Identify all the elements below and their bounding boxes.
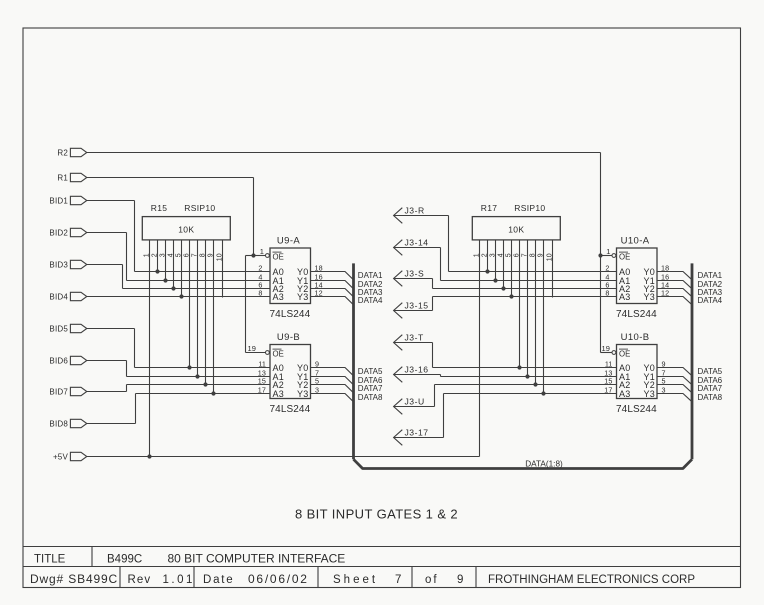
svg-text:RSIP10: RSIP10	[514, 203, 545, 213]
wire J3-14 horizontal	[394, 247, 441, 249]
wire R2 horizontal to U10 OE column	[87, 152, 601, 154]
input connector BID5	[70, 324, 86, 332]
svg-text:18: 18	[661, 263, 669, 272]
wire U10 output DATA7 to bus	[657, 385, 692, 393]
junction R15 pin 5	[179, 294, 183, 298]
wire J3-S vertical jog	[432, 279, 434, 289]
svg-text:Y3: Y3	[644, 389, 655, 399]
wire R2 vertical drop to U10-A/U10-B OE	[600, 153, 602, 353]
wire R1 vertical drop to U9-B OE	[245, 256, 247, 353]
wire R17 pin 4 pull-up	[503, 240, 505, 289]
svg-text:A3: A3	[619, 389, 630, 399]
wire U10 output DATA4 to bus	[657, 297, 692, 305]
wire U10 output DATA1 to bus	[657, 272, 692, 280]
wire J3-17 horizontal	[394, 437, 444, 439]
wire R15 pin 1 to +5V rail	[149, 240, 151, 457]
junction R15 pin 8	[203, 382, 207, 386]
svg-text:B499C: B499C	[107, 554, 142, 566]
junction R15 pin 7	[195, 374, 199, 378]
wire R17 pin 8 pull-up	[535, 240, 537, 385]
svg-text:J3-15: J3-15	[405, 301, 429, 311]
svg-text:15: 15	[604, 376, 612, 385]
svg-text:11: 11	[605, 359, 613, 368]
svg-text:BID8: BID8	[49, 420, 68, 429]
svg-text:BID4: BID4	[49, 293, 68, 302]
input connector BID4	[70, 292, 86, 300]
svg-text:9: 9	[457, 574, 463, 586]
svg-text:R17: R17	[481, 203, 498, 213]
svg-text:1: 1	[260, 247, 264, 256]
junction R1 at U9-A OE	[251, 253, 255, 257]
junction R17 pin 8	[533, 382, 537, 386]
wire J3-15 horizontal	[394, 310, 433, 312]
svg-text:1.01: 1.01	[163, 574, 195, 586]
svg-text:9: 9	[662, 359, 666, 368]
svg-text:DATA5: DATA5	[358, 367, 383, 376]
svg-text:1: 1	[473, 253, 480, 257]
wire J3-14 row into U10 input	[441, 280, 617, 282]
svg-text:+5V: +5V	[53, 453, 69, 462]
op-amp? no - buffer U10-A box	[617, 248, 658, 304]
wire +5V riser to R17 pin 1	[479, 240, 481, 457]
svg-text:74LS244: 74LS244	[616, 309, 657, 320]
svg-text:5: 5	[315, 376, 319, 385]
wire R15 pin 3 pull-up	[165, 240, 167, 281]
svg-text:J3-T: J3-T	[405, 333, 424, 343]
wire BID6 horizontal	[87, 360, 127, 362]
junction R15 pin 2	[155, 269, 159, 273]
junction R15 pin 3	[163, 278, 167, 282]
U9-B OE bubble	[266, 351, 270, 355]
input connector R2	[70, 148, 86, 156]
svg-text:U10-A: U10-A	[621, 236, 650, 247]
wire BID3 row into U9 input	[123, 288, 271, 290]
svg-text:2: 2	[605, 263, 609, 272]
junction R17 pin 3	[493, 278, 497, 282]
svg-text:BID2: BID2	[49, 229, 68, 238]
svg-text:BID5: BID5	[49, 325, 68, 334]
svg-text:J3-S: J3-S	[405, 269, 425, 279]
wire R15 pin 9 pull-up	[213, 240, 215, 394]
svg-text:DATA7: DATA7	[698, 384, 723, 393]
wire BID5 horizontal	[87, 328, 135, 330]
wire J3-R row into U10 input	[449, 271, 617, 273]
junction +5V at R15 pin 1	[147, 454, 151, 458]
wire J3-17 vertical jog	[443, 394, 445, 438]
svg-text:74LS244: 74LS244	[616, 404, 657, 415]
title block row2 divider x=476.0	[475, 567, 477, 588]
wire BID2 vertical jog	[126, 233, 128, 281]
wire J3-15 row into U10 input	[433, 296, 617, 298]
wire J3-R vertical jog	[448, 216, 450, 272]
wire U10 output DATA2 to bus	[657, 281, 692, 289]
wire BID8 row into U9 input	[136, 393, 271, 395]
svg-text:A3: A3	[273, 292, 284, 302]
connector arrow J3-16	[394, 367, 403, 383]
svg-text:J3-16: J3-16	[405, 365, 429, 375]
svg-text:DATA(1:8): DATA(1:8)	[525, 460, 563, 469]
junction R2 at U10-A OE	[598, 253, 602, 257]
svg-text:18: 18	[315, 263, 323, 272]
wire R1 jog left toward U9-B OE	[246, 255, 254, 257]
svg-text:3: 3	[662, 385, 666, 394]
svg-text:19: 19	[601, 344, 610, 353]
svg-text:12: 12	[661, 288, 669, 297]
wire R15 pin 2 pull-up	[157, 240, 159, 272]
wire R15 pin 8 pull-up	[205, 240, 207, 385]
title block top rule	[23, 546, 741, 548]
svg-text:RSIP10: RSIP10	[184, 203, 215, 213]
wire R17 pin 7 pull-up	[527, 240, 529, 377]
wire R17 pin 9 pull-up	[543, 240, 545, 394]
wire J3-U row into U10 input	[435, 384, 617, 386]
wire J3-14 vertical jog	[440, 248, 442, 281]
svg-text:R1: R1	[57, 174, 68, 183]
wire BID8 horizontal	[87, 423, 136, 425]
svg-text:DATA7: DATA7	[358, 384, 383, 393]
U10-B OE bubble	[612, 351, 616, 355]
title block middle rule	[23, 566, 741, 568]
wire BID8 vertical jog	[135, 394, 137, 424]
junction R15 pin 4	[171, 286, 175, 290]
svg-text:17: 17	[604, 385, 612, 394]
svg-text:DATA8: DATA8	[358, 393, 383, 402]
svg-text:DATA8: DATA8	[698, 393, 723, 402]
bus DATA(1:8) bottom run with chamfers	[354, 459, 693, 468]
wire U10 output DATA5 to bus	[657, 368, 692, 376]
wire J3-16 vertical jog	[440, 375, 442, 377]
wire J3-T row into U10 input	[433, 367, 617, 369]
input connector BID2	[70, 228, 86, 236]
wire U10 output DATA8 to bus	[657, 394, 692, 402]
wire R2 to U10-A OE bubble	[601, 255, 613, 257]
wire R15 pin 7 pull-up	[197, 240, 199, 377]
svg-text:J3-17: J3-17	[405, 428, 429, 438]
svg-text:10K: 10K	[508, 225, 524, 235]
wire U9 output DATA3 to bus	[311, 289, 354, 297]
wire BID4 to U9 input row	[87, 296, 270, 298]
wire J3-R horizontal	[394, 215, 449, 217]
wire BID6 vertical jog	[126, 361, 128, 377]
op-amp? no - buffer U9-B box	[270, 345, 311, 399]
title block divider after TITLE	[91, 547, 93, 567]
svg-text:Y3: Y3	[297, 292, 308, 302]
wire J3-S row into U10 input	[433, 288, 617, 290]
svg-text:BID1: BID1	[49, 197, 68, 206]
svg-text:J3-14: J3-14	[405, 238, 429, 248]
svg-text:J3-U: J3-U	[405, 397, 425, 407]
wire J3-T horizontal	[394, 342, 433, 344]
wire R1 horizontal	[87, 177, 254, 179]
U9-A OE bubble	[266, 254, 270, 258]
wire BID1 horizontal	[87, 200, 135, 202]
wire R15 pin 4 pull-up	[173, 240, 175, 289]
svg-text:OE: OE	[619, 350, 630, 359]
wire R2 to U10-B OE bubble	[601, 352, 613, 354]
title block row2 divider x=194.0	[193, 567, 195, 588]
op-amp? no - buffer U9-A box	[270, 248, 311, 304]
junction R17 pin 6	[517, 365, 521, 369]
svg-text:R2: R2	[57, 149, 68, 158]
wire J3-16 row into U10 input	[441, 376, 617, 378]
svg-text:Rev: Rev	[128, 574, 152, 586]
svg-text:12: 12	[315, 288, 323, 297]
wire J3-T vertical jog	[432, 343, 434, 368]
svg-text:Date: Date	[203, 574, 235, 586]
wire R17 pin 2 pull-up	[487, 240, 489, 272]
svg-text:7: 7	[395, 574, 401, 586]
input connector BID3	[70, 260, 86, 268]
input connector BID7	[70, 387, 86, 395]
wire U9 output DATA8 to bus	[311, 394, 354, 402]
connector arrow J3-S	[394, 271, 403, 287]
svg-text:80 BIT COMPUTER INTERFACE: 80 BIT COMPUTER INTERFACE	[168, 552, 346, 566]
junction R15 pin 9	[211, 391, 215, 395]
input connector BID6	[70, 356, 86, 364]
svg-text:15: 15	[258, 376, 266, 385]
svg-text:OE: OE	[273, 350, 284, 359]
svg-text:OE: OE	[273, 253, 284, 262]
svg-text:8: 8	[605, 288, 609, 297]
svg-text:17: 17	[258, 385, 266, 394]
wire BID2 row into U9 input	[127, 280, 271, 282]
wire +5V rail horizontal	[87, 456, 480, 458]
wire BID3 horizontal	[87, 264, 123, 266]
svg-text:J3-R: J3-R	[405, 206, 425, 216]
svg-text:A3: A3	[619, 292, 630, 302]
connector arrow J3-17	[394, 430, 403, 446]
wire R17 pin 1 (joins +5V riser)	[479, 240, 481, 241]
wire R1 to U9-A OE bubble	[254, 255, 266, 257]
svg-text:8 BIT INPUT GATES 1 & 2: 8 BIT INPUT GATES 1 & 2	[295, 507, 458, 522]
wire R15 pin 6 pull-up	[189, 240, 191, 368]
junction R17 pin 5	[509, 294, 513, 298]
wire J3-S horizontal	[394, 278, 433, 280]
svg-text:5: 5	[662, 376, 666, 385]
wire R17 pin 6 pull-up	[519, 240, 521, 368]
title block row2 divider x=318.0	[317, 567, 319, 588]
wire R15 pin 10 stub	[222, 240, 224, 298]
svg-text:19: 19	[247, 344, 256, 353]
wire J3-U horizontal	[394, 406, 435, 408]
wire BID5 vertical jog	[134, 329, 136, 368]
svg-text:DATA4: DATA4	[698, 296, 723, 305]
svg-text:U10-B: U10-B	[621, 332, 650, 343]
resistor pack R15 body	[142, 217, 230, 240]
svg-text:DATA5: DATA5	[698, 367, 723, 376]
input connector BID8	[70, 419, 86, 427]
wire BID3 vertical jog	[122, 265, 124, 289]
U10-A OE bubble	[612, 254, 616, 258]
wire U9 output DATA7 to bus	[311, 385, 354, 393]
svg-text:OE: OE	[619, 253, 630, 262]
resistor pack R17 body	[472, 217, 560, 240]
svg-text:Dwg# SB499C: Dwg# SB499C	[30, 572, 118, 586]
wire J3-16 horizontal	[394, 374, 441, 376]
junction R17 pin 2	[485, 269, 489, 273]
wire BID1 vertical jog	[134, 201, 136, 272]
svg-text:DATA1: DATA1	[698, 271, 723, 280]
input connector BID1	[70, 196, 86, 204]
svg-text:2: 2	[258, 263, 262, 272]
svg-text:10K: 10K	[178, 225, 194, 235]
wire U9 output DATA1 to bus	[311, 272, 354, 280]
svg-text:3: 3	[315, 385, 319, 394]
input connector +5V	[70, 452, 86, 460]
wire BID7 vertical jog	[126, 385, 128, 392]
wire R1 to U9-B OE bubble	[246, 352, 266, 354]
svg-text:1: 1	[606, 247, 610, 256]
svg-text:U9-A: U9-A	[277, 236, 301, 247]
svg-text:Y3: Y3	[644, 292, 655, 302]
bus DATA(1:8) left vertical	[352, 263, 355, 459]
svg-text:06/06/02: 06/06/02	[248, 572, 309, 586]
input connector R1	[70, 173, 86, 181]
connector arrow J3-T	[394, 335, 403, 351]
wire U9 output DATA2 to bus	[311, 281, 354, 289]
wire R17 pin 10 stub	[552, 240, 554, 298]
svg-text:Sheet: Sheet	[333, 574, 378, 586]
wire J3-15 vertical jog	[432, 297, 434, 311]
svg-text:74LS244: 74LS244	[270, 404, 311, 415]
svg-text:of: of	[425, 574, 439, 586]
svg-text:9: 9	[315, 359, 319, 368]
svg-text:11: 11	[258, 359, 266, 368]
wire J3-17 row into U10 input	[444, 393, 617, 395]
svg-text:Y3: Y3	[297, 389, 308, 399]
wire U10 output DATA3 to bus	[657, 289, 692, 297]
wire J3-U vertical jog	[434, 385, 436, 407]
wire BID1 row into U9 input	[135, 271, 271, 273]
svg-text:R15: R15	[151, 203, 168, 213]
connector arrow J3-U	[394, 399, 403, 415]
junction R17 pin 4	[501, 286, 505, 290]
wire BID2 horizontal	[87, 232, 127, 234]
connector arrow J3-15	[394, 303, 403, 319]
svg-text:BID7: BID7	[49, 388, 68, 397]
wire R17 pin 5 pull-up	[511, 240, 513, 297]
svg-text:74LS244: 74LS244	[270, 309, 311, 320]
title block row2 divider x=412.0	[411, 567, 413, 588]
wire U9 output DATA4 to bus	[311, 297, 354, 305]
svg-text:U9-B: U9-B	[277, 332, 300, 343]
connector arrow J3-14	[394, 240, 403, 256]
wire U9 output DATA6 to bus	[311, 377, 354, 385]
bus DATA(1:8) right vertical	[691, 263, 694, 459]
wire R15 pin 5 pull-up	[181, 240, 183, 297]
wire U9 output DATA5 to bus	[311, 368, 354, 376]
junction R17 pin 9	[541, 391, 545, 395]
wire U10 output DATA6 to bus	[657, 377, 692, 385]
wire BID5 row into U9 input	[135, 367, 271, 369]
connector arrow J3-R	[394, 208, 403, 224]
wire R1 vertical drop to U9-A OE	[253, 178, 255, 256]
svg-text:FROTHINGHAM ELECTRONICS CORP: FROTHINGHAM ELECTRONICS CORP	[488, 574, 695, 586]
svg-text:DATA4: DATA4	[358, 296, 383, 305]
wire R17 pin 3 pull-up	[495, 240, 497, 281]
svg-text:DATA1: DATA1	[358, 271, 383, 280]
svg-text:BID3: BID3	[49, 261, 68, 270]
junction R15 pin 6	[187, 365, 191, 369]
svg-text:TITLE: TITLE	[34, 554, 66, 566]
op-amp? no - buffer U10-B box	[617, 345, 658, 399]
wire BID7 horizontal	[87, 391, 127, 393]
svg-text:8: 8	[258, 288, 262, 297]
wire BID6 row into U9 input	[127, 376, 271, 378]
svg-text:BID6: BID6	[49, 357, 68, 366]
title block row2 divider x=120.0	[119, 567, 121, 588]
wire BID7 row into U9 input	[127, 384, 271, 386]
junction R17 pin 7	[525, 374, 529, 378]
svg-text:A3: A3	[273, 389, 284, 399]
